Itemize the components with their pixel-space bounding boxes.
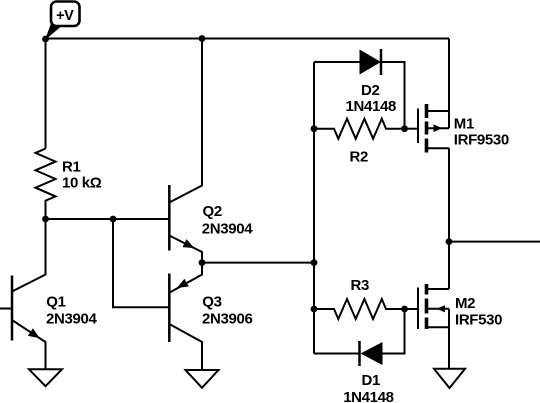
svg-text:M2: M2 [455, 295, 475, 312]
svg-text:R3: R3 [351, 277, 369, 294]
svg-text:R1: R1 [62, 159, 80, 176]
svg-text:R2: R2 [350, 148, 368, 165]
svg-text:1N4148: 1N4148 [343, 389, 393, 403]
svg-text:IRF530: IRF530 [455, 311, 502, 328]
svg-text:Q2: Q2 [203, 203, 222, 220]
svg-text:IRF9530: IRF9530 [454, 131, 509, 148]
svg-text:D2: D2 [361, 82, 379, 99]
svg-text:+V: +V [56, 8, 74, 24]
svg-text:D1: D1 [362, 372, 380, 389]
svg-text:2N3906: 2N3906 [202, 311, 252, 328]
svg-text:M1: M1 [454, 115, 474, 132]
svg-text:10 kΩ: 10 kΩ [62, 175, 102, 192]
svg-text:2N3904: 2N3904 [202, 221, 253, 238]
svg-text:Q3: Q3 [202, 293, 221, 310]
svg-text:1N4148: 1N4148 [346, 98, 396, 115]
svg-text:Q1: Q1 [46, 293, 65, 310]
svg-text:2N3904: 2N3904 [46, 311, 97, 328]
